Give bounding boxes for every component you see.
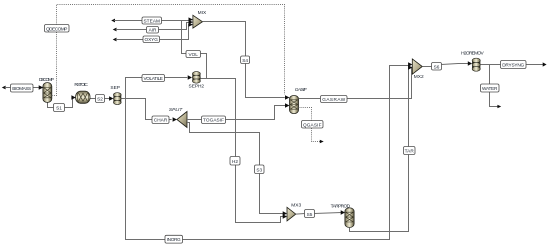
stream label VOL — [186, 51, 201, 58]
block GASIF — [290, 96, 299, 114]
arrow into RSTOIC — [71, 95, 75, 99]
arrow into TARPROD — [341, 210, 345, 214]
svg-text:DECOMP: DECOMP — [39, 77, 54, 83]
wire TAR: TARPROD to MX2 — [350, 67, 409, 232]
stream label WATER — [481, 84, 500, 92]
svg-text:S1: S1 — [56, 106, 62, 111]
block RSTOIC — [76, 91, 90, 103]
block MIX (triangle) — [193, 15, 203, 28]
svg-text:BIOMASS: BIOMASS — [12, 86, 31, 91]
svg-text:WATER: WATER — [482, 86, 498, 91]
svg-text:CHAR: CHAR — [154, 118, 168, 123]
stream label OXYG — [143, 36, 160, 43]
wire S1: DECOMP to RSTOIC — [48, 98, 76, 108]
wire S5: MX3 to TARPROD — [296, 213, 305, 216]
block MX2 (triangle) — [412, 59, 422, 74]
stream label STEAM — [142, 17, 162, 24]
svg-text:VOL: VOL — [189, 52, 199, 57]
stream label VOLATILE — [142, 75, 165, 82]
arrows into MX3 — [283, 211, 287, 218]
block SPLIT (triangle pointing left) — [177, 112, 187, 128]
wire INORG: SEP to MX2 (bottom loop) — [126, 66, 409, 240]
block H2OREMOV — [472, 58, 480, 72]
stream label H2 — [230, 157, 240, 166]
svg-text:MX3: MX3 — [291, 203, 301, 209]
svg-text:OXYG: OXYG — [144, 37, 158, 42]
heat stream QGASIF (dotted) — [299, 108, 321, 142]
wire H2: SEPH2 to MX3 — [201, 79, 284, 223]
stream label AIR — [147, 27, 159, 34]
svg-text:MIX: MIX — [198, 10, 207, 16]
stream label CHAR — [152, 116, 169, 124]
wire BIOMASS feed — [2, 86, 39, 90]
block DECOMP — [43, 83, 52, 103]
arrow into DECOMP — [39, 85, 44, 89]
stream label S4 — [241, 56, 250, 64]
block TARPROD — [345, 208, 354, 228]
wire DRYSYNG product — [481, 64, 543, 66]
arrows into MIX — [189, 17, 193, 26]
stream label DRYSYNG — [501, 61, 527, 69]
wire VOL: SEPH2 to MIX — [200, 54, 206, 79]
stream label S2 — [96, 95, 105, 103]
svg-text:AIR: AIR — [149, 28, 157, 33]
stream label S6 — [432, 63, 442, 71]
block SEPH2 — [192, 72, 200, 84]
DRYSYNG end arrow — [543, 62, 547, 66]
svg-text:DRYSYNG: DRYSYNG — [502, 63, 524, 68]
svg-text:MX2: MX2 — [414, 74, 424, 80]
arrow into GASIF upper — [285, 95, 290, 99]
svg-text:TOGASIF: TOGASIF — [203, 118, 224, 123]
wire S6: MX2 to H2OREMOV — [422, 66, 431, 68]
stream label TOGASIF — [202, 116, 226, 124]
svg-text:S5: S5 — [307, 212, 313, 217]
wire AIR feed to MIX — [113, 23, 190, 32]
svg-text:STEAM: STEAM — [143, 18, 160, 23]
svg-text:GASRAW: GASRAW — [322, 97, 346, 102]
svg-text:RSTOIC: RSTOIC — [74, 82, 88, 88]
stream label QDECOMP — [45, 25, 70, 33]
svg-text:S3: S3 — [256, 167, 262, 172]
stream label S1 — [54, 104, 65, 112]
wire WATER product — [490, 65, 498, 107]
wire VOLATILE: SEP to SEPH2 — [121, 78, 187, 99]
heat stream QDECOMP (dotted) — [52, 5, 285, 96]
svg-text:INORG: INORG — [167, 237, 181, 242]
stream label QGASIF — [302, 121, 324, 129]
svg-text:SEPH2: SEPH2 — [189, 83, 205, 89]
svg-text:TAR: TAR — [405, 149, 415, 154]
wire CHAR: SEP to SPLIT — [126, 99, 172, 120]
wire TOGASIF: SPLIT to GASIF — [187, 106, 285, 120]
wire S3: SPLIT to MX3 — [187, 123, 283, 214]
arrow into SPLIT — [173, 117, 177, 121]
block SEP — [113, 93, 121, 105]
svg-text:VOLATILE: VOLATILE — [143, 76, 163, 81]
wire S2: RSTOIC to SEP — [90, 98, 110, 100]
stream label S5 — [305, 210, 315, 218]
WATER end arrow — [497, 105, 501, 109]
wire OXYG feed to MIX — [113, 24, 190, 41]
svg-text:QDECOMP: QDECOMP — [46, 26, 67, 31]
wire STEAM feed to MIX — [111, 19, 189, 23]
svg-text:S6: S6 — [434, 64, 440, 69]
stream label BIOMASS — [11, 84, 34, 92]
block MX3 (triangle) — [287, 207, 296, 221]
arrow into GASIF lower — [285, 103, 290, 107]
svg-text:S4: S4 — [242, 58, 248, 63]
wire S4: MIX to GASIF — [203, 22, 285, 98]
QGASIF end arrow — [320, 140, 324, 144]
svg-text:H2OREMOV: H2OREMOV — [461, 50, 484, 56]
stream label INORG — [165, 235, 183, 243]
arrow into SEPH2 — [188, 75, 192, 79]
wire GASRAW: GASIF to MX2 — [299, 67, 412, 99]
svg-text:H2: H2 — [232, 159, 238, 164]
svg-text:SPLIT: SPLIT — [169, 107, 183, 113]
svg-text:QGASIF: QGASIF — [303, 122, 322, 127]
svg-text:TARPROD: TARPROD — [331, 204, 351, 210]
svg-text:GASIF: GASIF — [295, 87, 308, 93]
stream label TAR — [404, 147, 416, 155]
arrow into SEP — [109, 96, 113, 100]
stream label S3 — [255, 165, 265, 174]
stream label GASRAW — [321, 96, 348, 103]
arrows into MX2 — [408, 62, 412, 69]
svg-text:SEP: SEP — [110, 85, 120, 91]
arrow into H2OREMOV — [468, 61, 472, 65]
svg-text:S2: S2 — [97, 97, 103, 102]
